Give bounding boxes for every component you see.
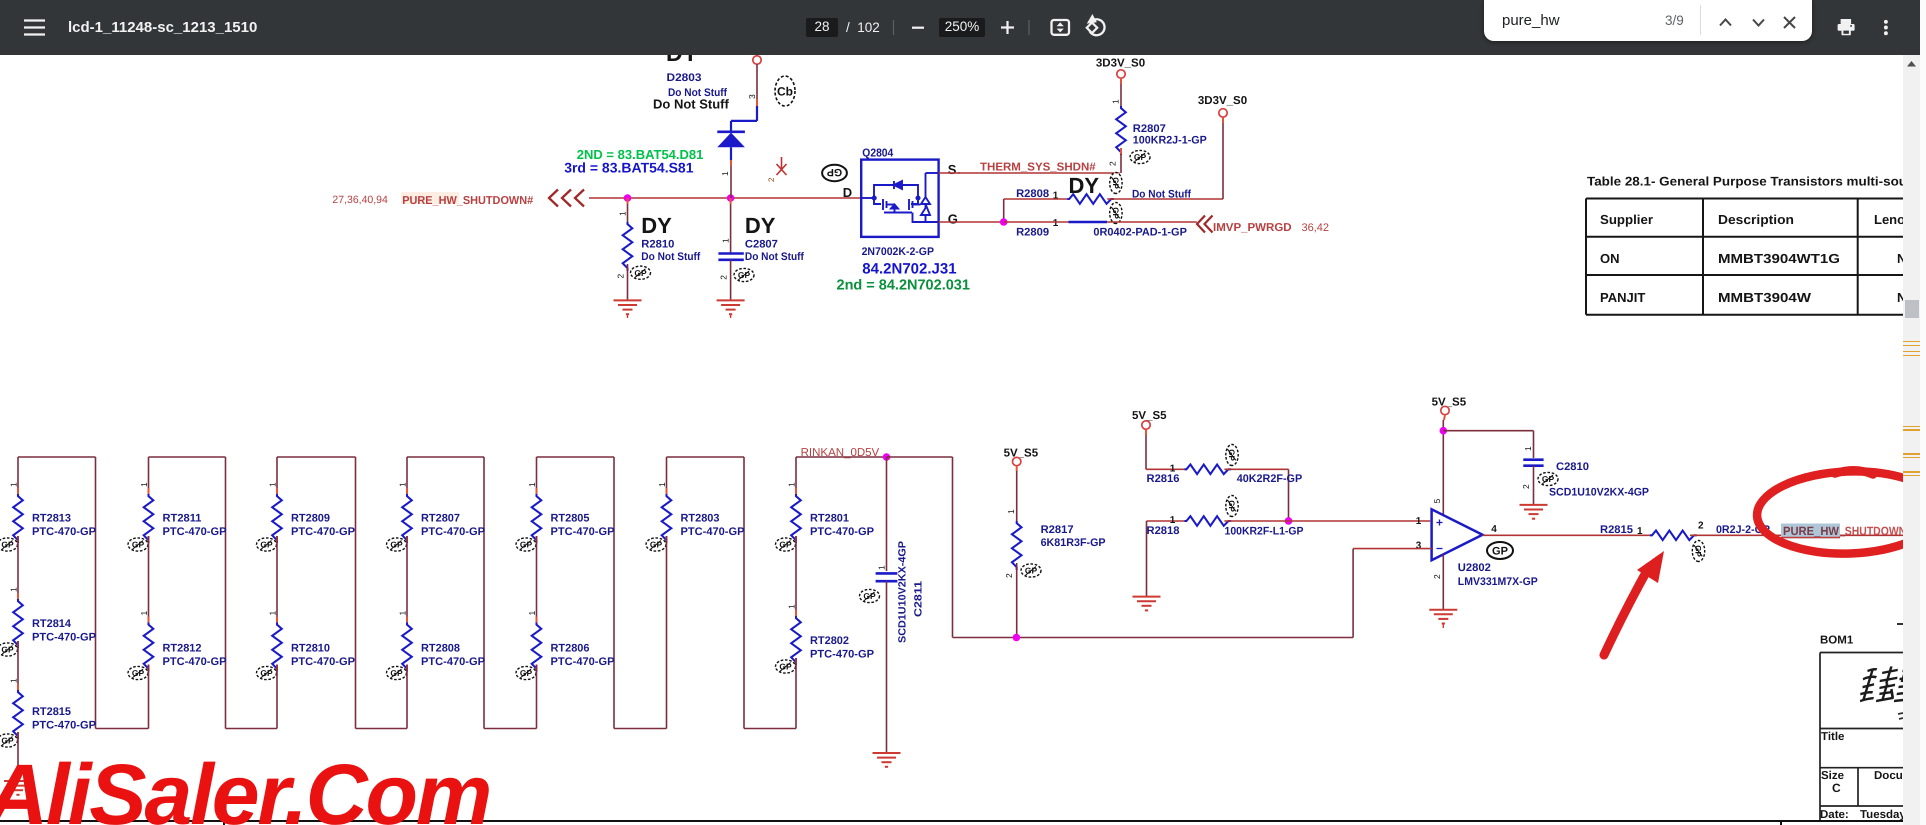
svg-text:C2810: C2810 (1556, 461, 1589, 473)
svg-text:100KR2J-1-GP: 100KR2J-1-GP (1133, 135, 1207, 147)
svg-text:_SHUTDOWN#: _SHUTDOWN# (1838, 524, 1912, 538)
svg-text:R2810: R2810 (641, 238, 674, 250)
svg-text:PTC-470-GP: PTC-470-GP (551, 526, 615, 538)
svg-text:1: 1 (398, 482, 408, 487)
svg-text:RT2815: RT2815 (32, 706, 71, 718)
svg-text:2N7002K-2-GP: 2N7002K-2-GP (862, 246, 934, 258)
svg-text:PTC-470-GP: PTC-470-GP (32, 526, 96, 538)
svg-text:RT2814: RT2814 (32, 618, 72, 630)
svg-text:100KR2F-L1-GP: 100KR2F-L1-GP (1225, 526, 1304, 538)
svg-text:PTC-470-GP: PTC-470-GP (32, 631, 96, 643)
svg-text:1: 1 (1053, 191, 1059, 202)
svg-text:THERM_SYS_SHDN#: THERM_SYS_SHDN# (980, 162, 1096, 174)
svg-text:PTC-470-GP: PTC-470-GP (810, 526, 874, 538)
svg-text:3: 3 (1416, 541, 1422, 552)
svg-text:MMBT3904W: MMBT3904W (1718, 290, 1812, 305)
svg-text:3D3V_S0: 3D3V_S0 (1198, 95, 1247, 107)
svg-text:1: 1 (9, 587, 19, 592)
svg-text:C: C (1832, 781, 1841, 795)
svg-text:Date:: Date: (1820, 809, 1849, 821)
svg-text:PURE_HW_SHUTDOWN#: PURE_HW_SHUTDOWN# (402, 195, 534, 207)
svg-text:6K81R3F-GP: 6K81R3F-GP (1041, 537, 1106, 549)
svg-text:1: 1 (268, 611, 278, 616)
svg-text:R2809: R2809 (1016, 226, 1049, 238)
svg-text:Cb: Cb (777, 85, 793, 99)
svg-text:MMBT3904WT1G: MMBT3904WT1G (1718, 251, 1840, 266)
svg-text:1: 1 (787, 604, 797, 609)
svg-text:RT2801: RT2801 (810, 513, 849, 525)
svg-text:2: 2 (767, 177, 776, 182)
svg-text:2: 2 (1521, 484, 1531, 489)
svg-text:2nd = 84.2N702.031: 2nd = 84.2N702.031 (837, 278, 970, 294)
svg-text:Supplier: Supplier (1600, 212, 1653, 227)
svg-text:1: 1 (721, 238, 731, 243)
svg-text:RT2805: RT2805 (551, 513, 590, 525)
svg-text:PTC-470-GP: PTC-470-GP (551, 656, 615, 668)
svg-text:3rd = 83.BAT54.S81: 3rd = 83.BAT54.S81 (564, 160, 694, 176)
svg-text:1: 1 (1006, 509, 1016, 514)
svg-text:5V_S5: 5V_S5 (1432, 397, 1467, 409)
svg-text:2: 2 (1698, 521, 1704, 532)
svg-text:RINKAN_0D5V: RINKAN_0D5V (801, 447, 880, 459)
svg-text:D2803: D2803 (667, 72, 702, 84)
svg-text:R2808: R2808 (1016, 188, 1049, 200)
svg-text:1: 1 (9, 678, 19, 683)
svg-text:RT2809: RT2809 (291, 513, 330, 525)
svg-text:RT2808: RT2808 (421, 642, 460, 654)
svg-text:PTC-470-GP: PTC-470-GP (32, 719, 96, 731)
svg-text:Title: Title (1821, 731, 1844, 743)
svg-text:1: 1 (1416, 516, 1422, 527)
svg-text:2: 2 (616, 274, 626, 279)
svg-text:1: 1 (527, 611, 537, 616)
svg-text:1: 1 (139, 611, 149, 616)
svg-text:Q2804: Q2804 (862, 148, 894, 160)
svg-text:RT2813: RT2813 (32, 513, 71, 525)
svg-text:C2807: C2807 (745, 238, 778, 250)
svg-text:DY: DY (641, 213, 672, 238)
svg-text:RT2803: RT2803 (681, 513, 720, 525)
svg-text:1: 1 (1523, 446, 1533, 451)
svg-text:1: 1 (268, 482, 278, 487)
svg-text:PANJIT: PANJIT (1600, 290, 1645, 305)
svg-text:AliSaler.Com: AliSaler.Com (0, 747, 490, 825)
svg-text:1: 1 (787, 482, 797, 487)
svg-text:Do Not Stuff: Do Not Stuff (745, 251, 804, 263)
svg-text:3: 3 (747, 94, 757, 99)
svg-text:DY: DY (745, 213, 776, 238)
svg-text:PTC-470-GP: PTC-470-GP (291, 526, 355, 538)
svg-text:Do Not Stuff: Do Not Stuff (641, 251, 700, 263)
svg-text:2: 2 (1004, 573, 1014, 578)
svg-text:−: − (1436, 542, 1443, 556)
svg-text:PTC-470-GP: PTC-470-GP (163, 526, 227, 538)
svg-text:PTC-470-GP: PTC-470-GP (681, 526, 745, 538)
svg-text:GP: GP (827, 166, 842, 178)
svg-text:36,42: 36,42 (1302, 222, 1330, 234)
svg-text:ON: ON (1600, 251, 1620, 266)
svg-text:1: 1 (139, 482, 149, 487)
svg-text:0R0402-PAD-1-GP: 0R0402-PAD-1-GP (1093, 226, 1187, 238)
svg-text:5: 5 (1432, 499, 1442, 504)
svg-text:1: 1 (720, 171, 730, 176)
svg-text:5V_S5: 5V_S5 (1004, 448, 1039, 460)
svg-text:LMV331M7X-GP: LMV331M7X-GP (1458, 576, 1538, 588)
svg-text:SCD1U10V2KX-4GP: SCD1U10V2KX-4GP (1549, 487, 1649, 499)
svg-text:S: S (948, 162, 957, 177)
svg-text:2: 2 (719, 275, 729, 280)
svg-text:40K2R2F-GP: 40K2R2F-GP (1237, 473, 1303, 485)
svg-text:U2802: U2802 (1458, 562, 1491, 574)
svg-text:R2816: R2816 (1147, 473, 1180, 485)
svg-text:RT2812: RT2812 (163, 642, 202, 654)
svg-text:RT2807: RT2807 (421, 513, 460, 525)
svg-text:R2807: R2807 (1133, 123, 1166, 135)
svg-text:PURE_HW: PURE_HW (1783, 524, 1840, 538)
svg-text:SCD1U10V2KX-4GP: SCD1U10V2KX-4GP (897, 541, 909, 643)
svg-text:GP: GP (1492, 545, 1508, 557)
svg-text:4: 4 (1491, 524, 1497, 535)
svg-text:27,36,40,94: 27,36,40,94 (332, 194, 388, 206)
svg-text:RT2806: RT2806 (551, 642, 590, 654)
svg-text:RT2802: RT2802 (810, 635, 849, 647)
svg-text:1: 1 (1637, 526, 1643, 537)
svg-text:1: 1 (877, 565, 887, 570)
svg-text:1: 1 (1053, 218, 1059, 229)
svg-text:PTC-470-GP: PTC-470-GP (291, 656, 355, 668)
svg-text:PTC-470-GP: PTC-470-GP (421, 656, 485, 668)
svg-text:Description: Description (1718, 212, 1794, 227)
svg-text:RT2811: RT2811 (163, 513, 202, 525)
svg-text:2: 2 (1432, 574, 1442, 579)
svg-text:2: 2 (1108, 161, 1118, 166)
svg-text:1: 1 (398, 611, 408, 616)
svg-text:R2818: R2818 (1147, 525, 1180, 537)
svg-text:1: 1 (657, 482, 667, 487)
svg-text:G: G (948, 212, 958, 227)
svg-text:PTC-470-GP: PTC-470-GP (810, 648, 874, 660)
svg-text:IMVP_PWRGD: IMVP_PWRGD (1213, 222, 1292, 234)
svg-text:PTC-470-GP: PTC-470-GP (163, 656, 227, 668)
svg-text:1: 1 (9, 482, 19, 487)
svg-text:D: D (843, 185, 852, 200)
svg-text:Do Not Stuff: Do Not Stuff (653, 97, 729, 112)
svg-text:5V_S5: 5V_S5 (1132, 410, 1167, 422)
svg-text:RT2810: RT2810 (291, 642, 330, 654)
svg-text:1: 1 (527, 482, 537, 487)
svg-text:1: 1 (618, 211, 628, 216)
svg-text:BOM1: BOM1 (1820, 635, 1854, 647)
svg-text:+: + (1436, 516, 1443, 530)
svg-text:PTC-470-GP: PTC-470-GP (421, 526, 485, 538)
svg-text:R2815: R2815 (1600, 524, 1633, 536)
svg-text:Do Not Stuff: Do Not Stuff (1132, 188, 1191, 200)
svg-text:DY: DY (666, 55, 698, 66)
svg-text:R2817: R2817 (1041, 524, 1074, 536)
svg-text:84.2N702.J31: 84.2N702.J31 (862, 261, 956, 278)
svg-text:Table 28.1- General Purpose Tr: Table 28.1- General Purpose Transistors … (1587, 175, 1907, 189)
svg-text:C2811: C2811 (913, 581, 925, 617)
svg-text:3D3V_S0: 3D3V_S0 (1096, 57, 1145, 69)
svg-text:1: 1 (1111, 99, 1121, 104)
